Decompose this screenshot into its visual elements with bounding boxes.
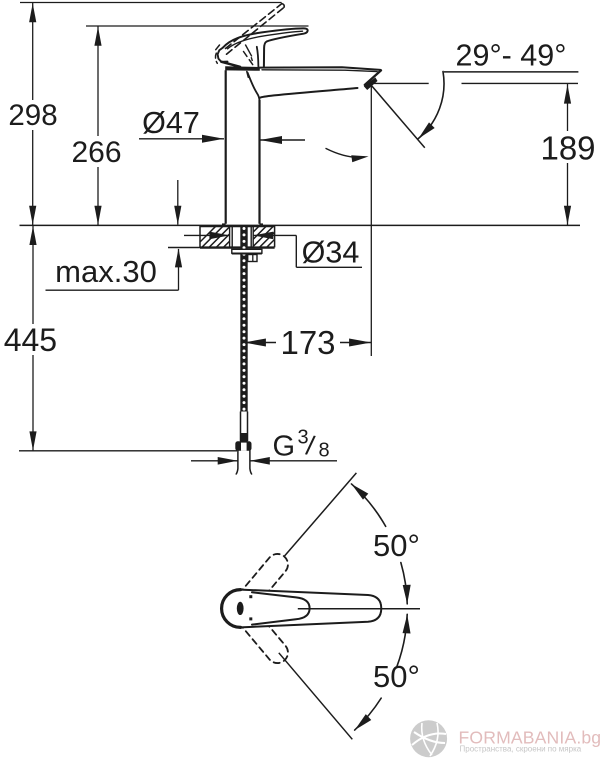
svg-text:50°: 50° (373, 528, 420, 563)
svg-text:298: 298 (8, 99, 57, 132)
svg-text:266: 266 (71, 136, 121, 169)
svg-text:max.30: max.30 (55, 254, 157, 289)
svg-text:50°: 50° (373, 659, 420, 694)
svg-text:445: 445 (4, 322, 57, 358)
svg-text:Ø34: Ø34 (302, 236, 360, 270)
svg-text:29°- 49°: 29°- 49° (456, 39, 567, 73)
svg-text:Пространства, скроени по мярка: Пространства, скроени по мярка (460, 745, 582, 754)
svg-text:8: 8 (319, 440, 330, 462)
svg-text:G: G (273, 431, 296, 463)
svg-text:189: 189 (540, 130, 595, 167)
svg-text:173: 173 (280, 324, 335, 361)
svg-text:Ø47: Ø47 (142, 106, 200, 140)
